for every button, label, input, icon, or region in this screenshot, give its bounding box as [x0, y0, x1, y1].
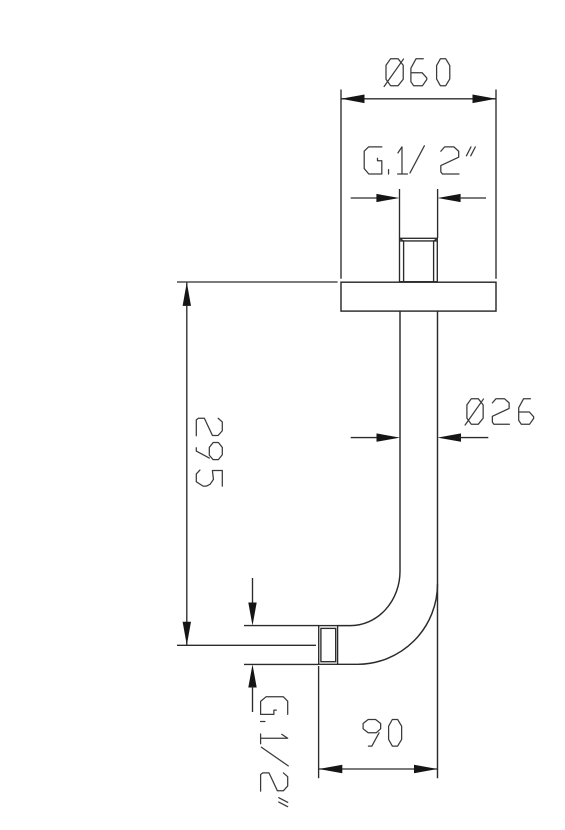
dim Ø60 dimension line [341, 98, 496, 100]
pipe right edge (and 90 dim extension) [437, 311, 439, 779]
dim Ø26 leader line right [459, 437, 488, 439]
threaded nipple outline [400, 238, 438, 281]
label Ø26 [465, 399, 534, 425]
wall flange plate [341, 282, 496, 311]
dim 295 arrowhead up [183, 282, 191, 306]
dim 295 bottom extension line [177, 644, 316, 646]
dim Ø60 extension line left [340, 90, 342, 279]
bottom dim extension line lower [244, 663, 319, 665]
dim G1/2 top leader line left [351, 197, 378, 199]
bottom dim arrow up [248, 664, 256, 712]
bottom dim arrow down [248, 578, 256, 626]
label Ø60 [384, 59, 450, 87]
dim 295 top extension line [177, 281, 338, 283]
label 295 (rotated) [196, 418, 222, 486]
dim Ø26 leader line left [351, 437, 379, 439]
dim 295 arrowhead down [183, 622, 191, 646]
dim 90 extension line left [318, 666, 320, 778]
dim 90 dimension line [319, 768, 438, 770]
dim Ø26 arrowhead right [438, 433, 462, 441]
dim G1/2 top arrowhead left [376, 194, 399, 202]
dim 295 dimension line [186, 283, 188, 645]
dim Ø60 arrowhead right [473, 95, 497, 104]
dim 90 arrowhead left [319, 765, 343, 774]
dim 90 arrowhead right [414, 765, 438, 774]
dim Ø60 arrowhead left [341, 95, 365, 104]
label G.1/2" bottom (rotated) [261, 697, 289, 807]
dim G1/2 top arrowhead right [438, 194, 461, 202]
bottom dim extension line upper [244, 625, 319, 627]
label G.1/2" top [364, 146, 475, 174]
bottom connector fitting [319, 626, 338, 665]
dim G1/2 top leader line right [459, 197, 486, 199]
label 90 [363, 720, 402, 747]
dim G1/2 top extension line right [437, 189, 439, 238]
pipe outer bend [338, 584, 438, 664]
dim Ø60 extension line right [495, 90, 497, 279]
dim Ø26 arrowhead left [377, 433, 401, 441]
dim G1/2 top extension line left [399, 189, 401, 238]
pipe left edge and inner bend [338, 311, 400, 626]
